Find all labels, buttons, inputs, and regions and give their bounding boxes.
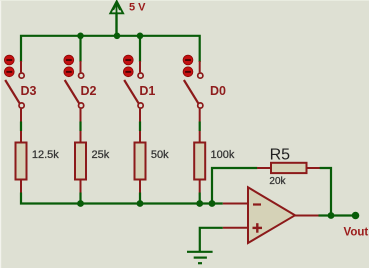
svg-text:25k: 25k [92,149,110,161]
svg-text:100k: 100k [211,149,235,161]
label D2 [81,84,97,98]
wire R3 to bus [139,193,141,204]
switch D0 [184,61,203,122]
switch D0 actuator buttons [183,55,193,77]
switch D3 actuator buttons [4,55,14,77]
switch D3 [5,61,24,122]
wire R4 to bus [199,193,201,204]
junction dot bus/power [114,33,121,40]
svg-text:D1: D1 [139,84,155,98]
wire D1 drop from bus [139,36,141,62]
terminal Vout [352,212,360,220]
junction dot bus/D2 [77,33,84,40]
label 5 V [129,2,146,14]
junction dot bus/feedback [209,200,216,207]
junction dot bus/R4 [196,200,203,207]
wire R5 to output node [320,168,331,216]
junction dot bus/D1 [137,33,144,40]
label 20k [269,176,286,187]
ground [187,252,213,263]
label 50k [151,149,169,161]
wire feedback riser [212,168,257,204]
wire D1 switch to resistor [139,122,141,132]
label 12.5k [32,149,59,161]
resistor R1 12.5k [16,131,27,193]
power symbol +5V arrow [110,1,123,36]
wire op-amp output to terminal [319,214,356,216]
label Vout [344,227,369,239]
label R5 [270,147,291,164]
svg-text:20k: 20k [269,176,286,187]
resistor R2 25k [75,131,86,193]
switch D1 actuator buttons [123,55,133,77]
wire D0 switch to resistor [199,122,201,132]
wire summing bus (inverting input) [21,193,223,204]
switch D2 [65,61,84,122]
label D1 [139,84,155,98]
label D0 [210,84,226,98]
wire D2 switch to resistor [79,122,81,132]
switch D2 actuator buttons [64,55,74,77]
svg-text:12.5k: 12.5k [32,149,59,161]
label D3 [21,84,37,98]
svg-text:D3: D3 [21,84,37,98]
junction dot bus/R3 [137,200,144,207]
svg-text:50k: 50k [151,149,169,161]
junction dot bus/R2 [77,200,84,207]
resistor R3 50k [135,131,146,193]
op-amp U1 [223,187,319,243]
svg-text:5 V: 5 V [129,2,146,14]
junction dot output/feedback [328,212,335,219]
resistor R5 20k [257,163,320,173]
resistor R4 100k [194,131,205,193]
svg-text:R5: R5 [270,147,291,164]
wire non-inverting input to ground [200,228,223,251]
label 25k [92,149,110,161]
wire D2 drop from bus [79,36,81,62]
wire VCC top bus [21,36,200,62]
wire D3 switch to resistor [20,122,22,132]
wire R2 to bus [79,193,81,204]
svg-text:Vout: Vout [344,227,369,239]
svg-text:D0: D0 [210,84,226,98]
label 100k [211,149,235,161]
switch D1 [124,61,143,122]
svg-text:D2: D2 [81,84,97,98]
